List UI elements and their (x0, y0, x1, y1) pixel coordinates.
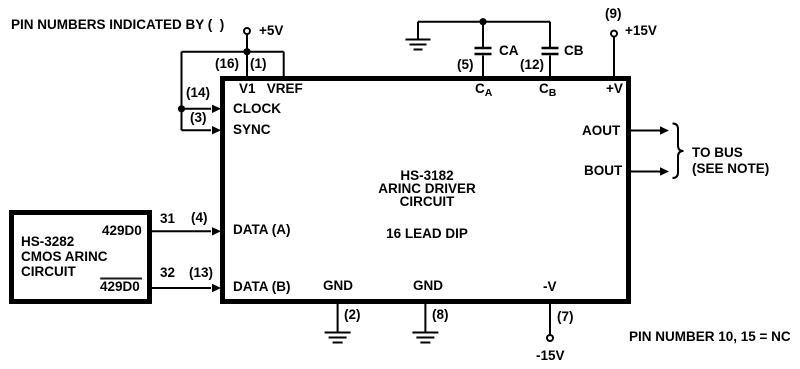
pin name SYNC (233, 123, 271, 136)
pin label 31 (160, 212, 175, 225)
ground pin 8 (412, 333, 438, 343)
pin label (3) (190, 111, 207, 124)
pin label (4) (191, 211, 208, 224)
pin label (12) (520, 58, 544, 71)
label TO BUS (692, 146, 743, 159)
pin name -V (543, 280, 557, 293)
pin name BOUT (584, 164, 622, 177)
wire AOUT lead (630, 130, 660, 132)
label HS-3282 title (21, 234, 108, 279)
node junction CA (479, 18, 486, 25)
overline 429D0 (100, 278, 142, 280)
label +15V (625, 24, 657, 37)
arrowhead DATA B pin 13 (212, 284, 221, 292)
capacitor CB (542, 22, 559, 77)
pin name V1 VREF (239, 82, 303, 95)
arrowhead AOUT (660, 126, 669, 134)
arrowhead CLOCK pin 14 (212, 105, 221, 113)
wire pin16 stub (246, 52, 248, 77)
label +5V (259, 24, 283, 37)
label SEE NOTE (692, 162, 769, 175)
pin name +V (606, 82, 623, 95)
wire GND pin8 drop (424, 302, 426, 333)
note pin numbers (11, 18, 224, 31)
pin name CA (475, 82, 492, 100)
wire -V drop pin 7 (549, 302, 551, 335)
pin name CLOCK (233, 102, 281, 115)
pin name GND 8 (413, 279, 443, 292)
-15V terminal (547, 335, 553, 341)
wire pin1 stub (283, 52, 285, 77)
pin label (8) (432, 308, 449, 321)
value label CB (564, 44, 584, 57)
node junction +5V (243, 48, 250, 55)
wire +15V drop (613, 37, 615, 77)
IC U1 HS-3182 box (223, 79, 629, 302)
pin name CB (539, 82, 556, 100)
wire CLOCK lead (182, 108, 212, 110)
wire +5V drop (246, 34, 248, 52)
pin name DATA (A) (233, 223, 290, 236)
capacitor CA (475, 22, 492, 77)
+15V terminal pin 9 (611, 31, 617, 37)
pin label (13) (189, 266, 213, 279)
pin label 32 (160, 266, 175, 279)
pin label (2) (344, 308, 361, 321)
label HS-3182 title (378, 169, 476, 208)
value label CA (499, 44, 519, 57)
wire SYNC lead (182, 129, 212, 131)
arrowhead SYNC pin 3 (212, 126, 221, 134)
ground top (406, 22, 431, 50)
pin name DATA (B) (233, 280, 290, 293)
signal label 429D0 (102, 224, 142, 237)
pin label (16) (215, 57, 239, 70)
label 16 LEAD DIP (386, 227, 468, 240)
pin label (5) (457, 58, 474, 71)
node junction clock (178, 105, 185, 112)
wire DATA B lead (152, 287, 211, 289)
IC U2 HS-3282 box (12, 213, 150, 302)
+5V terminal (244, 28, 250, 34)
pin label (14) (186, 86, 210, 99)
pin name GND 2 (323, 279, 353, 292)
pin label (1) (250, 57, 267, 70)
arrowhead DATA A pin 4 (212, 227, 221, 235)
wire GND pin2 drop (337, 302, 339, 333)
signal label 429D0 inverted (100, 280, 140, 293)
ground pin 2 (325, 333, 351, 343)
note NC pins (629, 330, 791, 343)
wire top rail CA CB (418, 21, 550, 23)
wire DATA A lead (152, 230, 211, 232)
wire +5V rail (182, 51, 284, 53)
arrowhead BOUT (660, 167, 669, 175)
pin label (9) (605, 7, 622, 20)
wire BOUT lead (630, 171, 660, 173)
pin name AOUT (582, 124, 620, 137)
brace to bus (673, 124, 684, 179)
pin label (7) (557, 310, 574, 323)
wire left branch down (181, 52, 183, 131)
label -15V (536, 349, 565, 362)
